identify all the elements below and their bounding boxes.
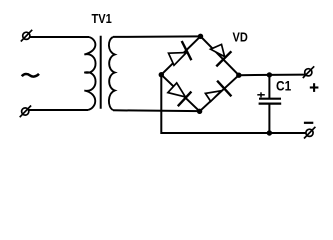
terminal X2 bottom-left bbox=[20, 106, 31, 118]
bridge diamond edges bbox=[161, 36, 239, 111]
node bottom (junction dot) bbox=[197, 109, 202, 114]
node left (junction dot) bbox=[159, 72, 164, 77]
wire primary top bbox=[30, 36, 90, 38]
capacitor C1 bottom lead bbox=[268, 104, 270, 133]
diode VD4 lower-right bbox=[205, 81, 231, 102]
wire right node to positive terminal bbox=[239, 74, 305, 77]
wire left node down and right to negative rail bbox=[161, 75, 305, 133]
terminal X3 top-right bbox=[303, 66, 314, 78]
diode VD3 lower-left bbox=[168, 83, 192, 106]
node top (junction dot) bbox=[198, 34, 203, 39]
capacitor polarity plus mark bbox=[257, 92, 265, 97]
junction dot positive rail bbox=[267, 72, 272, 77]
diode VD2 upper-right bbox=[211, 44, 232, 66]
label minus output bbox=[304, 122, 313, 124]
capacitor C1 top lead bbox=[268, 75, 270, 99]
transformer core line bbox=[100, 36, 102, 109]
svg-text:VD: VD bbox=[233, 29, 249, 44]
wire secondary top to bridge bbox=[113, 35, 200, 38]
AC tilde symbol bbox=[22, 74, 39, 77]
wire secondary bottom to bridge bbox=[113, 109, 199, 112]
wire primary bottom bbox=[29, 109, 89, 111]
capacitor C1 top plate bbox=[259, 98, 281, 100]
terminal X1 top-left bbox=[21, 30, 32, 42]
junction dot negative rail bbox=[267, 130, 272, 135]
transformer TV1 primary winding bbox=[84, 37, 95, 110]
label plus output bbox=[310, 83, 319, 92]
capacitor C1 bottom plate bbox=[259, 102, 282, 104]
svg-text:TV1: TV1 bbox=[92, 11, 113, 26]
node right (junction dot) bbox=[236, 73, 241, 78]
svg-text:C1: C1 bbox=[276, 78, 291, 94]
terminal X4 bottom-right bbox=[304, 127, 315, 139]
diode VD1 upper-left bbox=[169, 41, 192, 65]
transformer TV1 secondary winding bbox=[109, 37, 115, 110]
